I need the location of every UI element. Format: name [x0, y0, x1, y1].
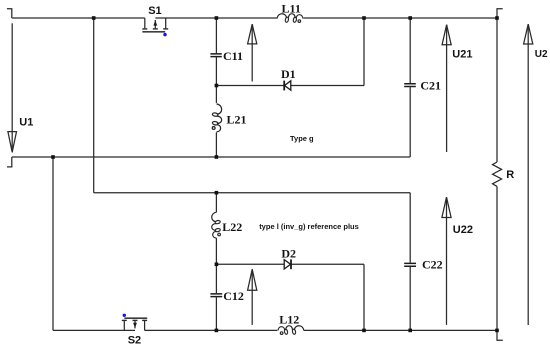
svg-text:C12: C12 — [223, 289, 244, 303]
svg-text:C21: C21 — [420, 79, 441, 93]
svg-text:U21: U21 — [452, 49, 472, 61]
svg-text:U2: U2 — [535, 49, 548, 60]
svg-text:D2: D2 — [281, 246, 296, 260]
svg-text:Type g: Type g — [290, 134, 314, 143]
svg-text:R: R — [506, 169, 514, 181]
svg-text:D1: D1 — [281, 67, 296, 81]
svg-text:L21: L21 — [227, 113, 247, 127]
svg-text:U1: U1 — [19, 117, 33, 129]
svg-text:C22: C22 — [422, 257, 443, 271]
svg-text:L22: L22 — [222, 220, 242, 234]
svg-text:C11: C11 — [223, 49, 243, 63]
svg-text:S2: S2 — [128, 335, 141, 347]
svg-text:L12: L12 — [279, 313, 299, 327]
svg-text:type l (inv_g) reference plus: type l (inv_g) reference plus — [259, 222, 359, 231]
svg-text:S1: S1 — [148, 5, 161, 17]
svg-text:U22: U22 — [453, 224, 473, 236]
svg-text:L11: L11 — [282, 2, 301, 16]
